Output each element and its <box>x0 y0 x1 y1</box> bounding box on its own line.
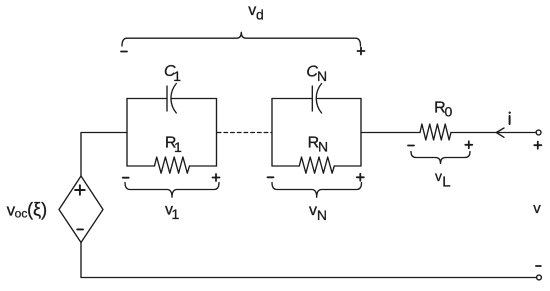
svg-text:v: v <box>248 2 256 19</box>
svg-text:1: 1 <box>174 139 182 155</box>
svg-text:(ξ): (ξ) <box>27 200 47 220</box>
svg-text:1: 1 <box>173 68 181 84</box>
svg-text:0: 0 <box>445 104 453 120</box>
svg-text:v: v <box>435 168 442 184</box>
svg-text:N: N <box>317 207 327 223</box>
svg-text:v: v <box>309 202 317 219</box>
svg-text:N: N <box>317 68 327 84</box>
svg-text:L: L <box>442 174 450 191</box>
svg-text:1: 1 <box>172 206 180 222</box>
svg-text:N: N <box>318 139 328 155</box>
svg-text:v: v <box>533 200 541 217</box>
svg-text:oc: oc <box>15 207 28 221</box>
svg-text:d: d <box>256 7 264 23</box>
